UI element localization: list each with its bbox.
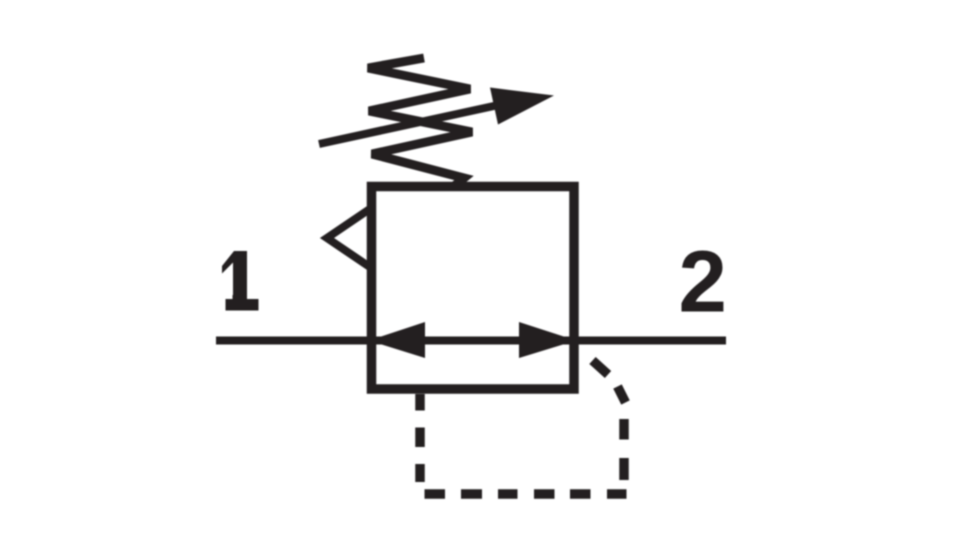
adjustment arrowhead (490, 88, 554, 125)
dashed pilot feedback line: diagonal dashes (593, 361, 626, 403)
wire flow line 1-2 (216, 337, 726, 345)
dashed pilot feedback line: right vertical (619, 419, 629, 480)
pilot chevron on left of box (327, 210, 369, 267)
svg-text:2: 2 (679, 234, 727, 331)
dashed pilot feedback line: left vertical (415, 394, 425, 482)
arrowhead right (flow) (519, 322, 576, 358)
dashed pilot feedback line: bottom horizontal (425, 489, 627, 499)
label port 1 (222, 251, 247, 299)
valve body box (372, 187, 575, 390)
adjustment arrow shaft (319, 103, 510, 145)
arrowhead left (flow) (369, 322, 425, 358)
spring (adjustable) zigzag (368, 58, 472, 187)
